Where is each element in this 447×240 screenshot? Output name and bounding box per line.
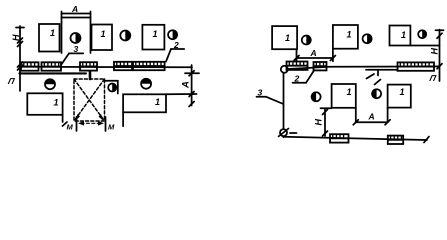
dimension A (top, between room walls): [62, 4, 91, 14]
switch C4: [108, 84, 116, 92]
double arrow between posts: [78, 121, 104, 126]
lamp C3: [168, 30, 177, 39]
wall end slash: [424, 137, 429, 143]
svg-text:3: 3: [74, 44, 79, 54]
callout 2 (right figure): [293, 71, 315, 84]
panel 1 rectangle R1b: [92, 25, 113, 51]
feeder stub to shaft: [89, 72, 92, 80]
svg-text:1: 1: [50, 28, 55, 38]
lamp C2: [120, 31, 130, 41]
luminaire La: [287, 62, 308, 70]
svg-text:M: M: [67, 123, 74, 132]
panel 1 rectangle R1c: [142, 25, 164, 50]
luminaire L4: [114, 62, 132, 70]
luminaire L1: [21, 62, 39, 70]
svg-text:M: M: [108, 123, 115, 132]
corridor bottom wall (left): [19, 72, 86, 74]
M post (left): [76, 117, 78, 131]
svg-text:H: H: [11, 34, 21, 41]
dimension H (left wall): [11, 26, 24, 91]
svg-text:1: 1: [54, 98, 59, 108]
bottom wall (right figure): [284, 137, 428, 140]
svg-text:1: 1: [347, 87, 352, 97]
wall right of shaft: [105, 81, 118, 94]
luminaire Lb: [314, 62, 327, 70]
room rectangle T1: [272, 26, 297, 61]
room rectangle M2: [388, 85, 411, 108]
svg-text:A: A: [310, 48, 317, 58]
callout 2 (luminaire label): [166, 40, 184, 62]
dimension H (middle, right figure): [314, 108, 332, 136]
lamp Ct2: [363, 34, 372, 43]
svg-text:1: 1: [400, 87, 405, 97]
luminaire Lc: [398, 62, 435, 70]
luminaire L2: [42, 62, 62, 70]
dimension H (right margin): [430, 30, 444, 81]
ventilation shaft (dashed crossed box): [74, 79, 105, 121]
luminaire Ld: [330, 134, 349, 142]
group line (right figure): [288, 66, 440, 69]
M post (right): [105, 117, 107, 131]
lamp C5: [141, 79, 151, 89]
lamp Ct3: [418, 30, 426, 38]
room rectangle M1: [332, 84, 356, 108]
room rectangle T3: [390, 26, 440, 46]
panel 1 rectangle R1a: [39, 24, 60, 52]
svg-text:1: 1: [101, 29, 106, 39]
room opening walls (center top room): [62, 12, 91, 54]
group line (corridor): [20, 66, 192, 69]
callout 3 (group line label): [62, 44, 84, 64]
luminaire Le: [388, 136, 403, 144]
svg-text:A: A: [71, 4, 78, 14]
lamp C1 (half-filled circle): [71, 33, 81, 43]
junction box A (circle on corner): [281, 66, 288, 73]
luminaire L3: [80, 62, 97, 70]
lamp Ct1: [302, 36, 311, 45]
svg-text:H: H: [430, 48, 440, 55]
svg-text:1: 1: [285, 33, 290, 43]
dimension A (top, right figure): [294, 48, 335, 61]
svg-text:H: H: [314, 119, 324, 126]
shaft arrowheads: [75, 114, 105, 122]
svg-text:1: 1: [155, 97, 160, 107]
svg-text:1: 1: [347, 30, 352, 40]
room rectangle T2: [333, 25, 358, 61]
svg-text:1: 1: [153, 29, 158, 39]
svg-text:A: A: [368, 112, 375, 122]
callout 3 (right figure): [257, 88, 284, 105]
dimension A (middle, right figure): [353, 108, 390, 125]
svg-text:1: 1: [401, 30, 406, 40]
room rectangle R2b: [123, 94, 196, 126]
room rectangle R2a: [27, 93, 67, 126]
dimension A (right vertical): [181, 65, 200, 107]
luminaire L5: [133, 62, 165, 70]
left wall (right figure): [283, 73, 285, 137]
switch c2: [372, 89, 381, 98]
svg-text:A: A: [181, 81, 192, 89]
switch c1: [312, 92, 321, 101]
branch line to room M2: [366, 69, 398, 71]
lamp C6 (bottom-left room): [45, 79, 55, 89]
drop tick near M2: [367, 70, 381, 85]
junction box B: [279, 129, 297, 137]
